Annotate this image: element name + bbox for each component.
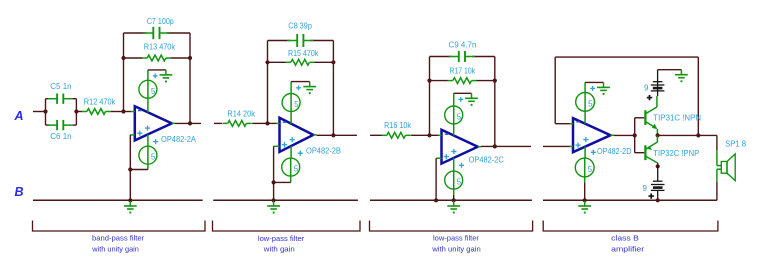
svg-text:band-pass filter: band-pass filter: [92, 234, 145, 243]
svg-text:R16 10k: R16 10k: [384, 121, 412, 130]
svg-text:OP482-2B: OP482-2B: [306, 146, 341, 155]
svg-text:OP482-2C: OP482-2C: [469, 155, 504, 164]
svg-text:with gain: with gain: [263, 244, 295, 253]
svg-text:SP1 8: SP1 8: [725, 140, 746, 149]
svg-text:B: B: [15, 185, 24, 199]
svg-text:5: 5: [588, 99, 593, 108]
svg-text:with unity gain: with unity gain: [431, 245, 480, 254]
svg-text:TIP32C !PNP: TIP32C !PNP: [653, 149, 699, 158]
svg-text:R12 470k: R12 470k: [84, 97, 116, 106]
svg-text:C8 39p: C8 39p: [288, 22, 312, 31]
svg-text:C7 100p: C7 100p: [147, 17, 175, 26]
svg-text:with unity gain: with unity gain: [91, 245, 139, 254]
svg-text:OP482-2D: OP482-2D: [597, 147, 632, 156]
svg-text:5: 5: [457, 178, 462, 187]
svg-text:9: 9: [643, 184, 648, 193]
svg-text:5: 5: [294, 100, 299, 109]
svg-text:A: A: [14, 109, 24, 123]
svg-text:5: 5: [457, 113, 462, 122]
svg-text:C6 1n: C6 1n: [50, 132, 71, 141]
svg-text:R14 20k: R14 20k: [227, 109, 256, 118]
svg-text:amplifier: amplifier: [611, 245, 645, 254]
svg-text:class B: class B: [611, 234, 639, 243]
svg-text:5: 5: [294, 165, 299, 174]
svg-text:5: 5: [588, 165, 593, 174]
svg-text:TIP31C !NPN: TIP31C !NPN: [653, 113, 701, 122]
svg-text:C5 1n: C5 1n: [50, 82, 71, 91]
svg-text:OP482-2A: OP482-2A: [161, 135, 197, 144]
svg-text:R13 470k: R13 470k: [144, 42, 176, 51]
svg-text:9: 9: [644, 83, 649, 92]
svg-text:low-pass filter: low-pass filter: [433, 234, 479, 243]
svg-text:5: 5: [151, 153, 156, 162]
svg-text:R17 10k: R17 10k: [450, 66, 476, 75]
svg-text:low-pass filter: low-pass filter: [258, 234, 305, 243]
svg-text:5: 5: [151, 87, 156, 96]
svg-text:C9 4.7n: C9 4.7n: [449, 40, 477, 49]
svg-text:R15 470k: R15 470k: [288, 49, 319, 58]
